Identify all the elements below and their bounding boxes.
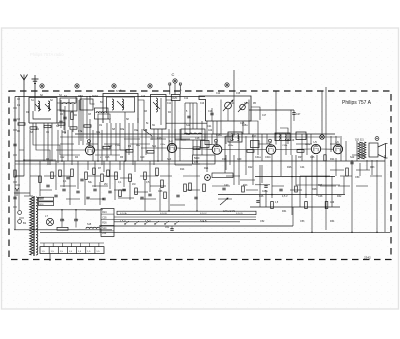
- svg-text:S 14 A: S 14 A: [120, 212, 127, 215]
- coil box S9: [151, 95, 167, 130]
- IF transformer can S17: [228, 132, 242, 142]
- wire: [23, 97, 25, 160]
- padder C16: [210, 112, 213, 114]
- svg-text:Philips 757A radio: Philips 757A radio: [30, 52, 64, 57]
- svg-text:S10: S10: [143, 129, 148, 132]
- svg-text:C12: C12: [60, 156, 65, 159]
- svg-text:R18: R18: [222, 158, 227, 161]
- grid cap L1: [88, 140, 91, 143]
- svg-text:C16: C16: [208, 110, 213, 113]
- ground symbol: [34, 75, 36, 97]
- wire: [220, 100, 222, 122]
- wire: [174, 101, 176, 124]
- wire staircase: [98, 114, 103, 150]
- svg-text:B1: B1: [23, 221, 27, 225]
- wire: [160, 98, 162, 125]
- svg-text:C52: C52: [260, 220, 265, 223]
- bus line: [15, 96, 205, 98]
- svg-text:C57: C57: [74, 219, 79, 222]
- svg-text:C56: C56: [60, 219, 65, 222]
- plug arrow: [16, 188, 19, 191]
- bus line: [40, 231, 390, 233]
- output transformer S20: [358, 142, 361, 159]
- resistor RVD box: [171, 95, 180, 101]
- wire staircase: [144, 130, 152, 140]
- resistor R21: [203, 184, 206, 192]
- coil S1: [38, 101, 40, 111]
- capacitor C43: [264, 185, 267, 187]
- tube L5: [311, 144, 320, 153]
- svg-text:C21: C21: [207, 125, 212, 128]
- resistor network box: [193, 155, 216, 164]
- wire: [14, 192, 30, 194]
- bus line: [114, 221, 240, 223]
- capacitor C15a: [102, 197, 105, 199]
- capacitor C33: [108, 190, 111, 192]
- filament chain box: [40, 247, 104, 254]
- resistor R5: [71, 169, 74, 177]
- svg-text:S15: S15: [87, 223, 92, 226]
- wire: [56, 149, 85, 151]
- capacitor C18: [140, 196, 143, 198]
- coil S9: [156, 98, 158, 112]
- terminal G: [320, 135, 325, 140]
- svg-text:Philips 757 A: Philips 757 A: [342, 100, 372, 106]
- capacitor C40a: [222, 187, 225, 189]
- svg-text:C49: C49: [330, 202, 335, 204]
- svg-text:C28: C28: [195, 137, 200, 140]
- tube L2: [167, 143, 176, 152]
- svg-text:S11: S11: [152, 145, 157, 148]
- capacitor C13: [54, 194, 57, 196]
- wave switch contacts: [124, 223, 125, 224]
- svg-text:S13: S13: [167, 158, 172, 161]
- svg-text:R31: R31: [282, 210, 287, 213]
- resistor R29: [271, 202, 274, 209]
- mains terminal: [18, 211, 22, 215]
- junction dots: [23, 159, 25, 161]
- resistor R8a: [119, 190, 122, 197]
- oscillator box: [199, 96, 251, 121]
- output transformer S21: [363, 142, 366, 159]
- svg-text:R17: R17: [252, 135, 257, 138]
- capacitor C13a: [80, 178, 83, 180]
- svg-text:2342: 2342: [364, 256, 371, 260]
- capacitor C27: [292, 112, 295, 114]
- tube L6: [333, 145, 342, 154]
- svg-text:C16: C16: [105, 156, 110, 159]
- svg-text:C14: C14: [230, 102, 235, 105]
- inter-tube components: [103, 146, 110, 149]
- wire staircase: [166, 100, 172, 143]
- wire: [211, 108, 213, 121]
- wire vertical: [248, 100, 250, 135]
- resistor R7: [101, 174, 104, 182]
- resistor R11: [156, 168, 159, 176]
- wire: [249, 109, 294, 111]
- resistor R13: [184, 184, 187, 192]
- wire gram left: [169, 85, 171, 95]
- svg-text:C14: C14: [216, 93, 221, 95]
- svg-text:R28: R28: [312, 188, 317, 191]
- tube L1: [85, 146, 94, 155]
- terminal F: [225, 83, 229, 87]
- trimmer C7: [117, 101, 124, 108]
- resistor R2a: [39, 176, 42, 183]
- resistor R15 box: [39, 197, 54, 201]
- capacitor C3: [13, 143, 16, 145]
- vertical frame left: [14, 97, 16, 230]
- svg-text:C: C: [172, 72, 175, 77]
- wire staircase: [15, 160, 24, 176]
- wire vertical: [275, 91, 277, 145]
- resistor R7a: [107, 170, 110, 177]
- coil box S6: [80, 99, 93, 110]
- svg-text:C44: C44: [300, 166, 305, 169]
- band coil box S7: [103, 94, 138, 124]
- svg-text:4,5 V: 4,5 V: [282, 195, 288, 198]
- wire: [299, 176, 301, 207]
- wire: [34, 97, 36, 111]
- resistor R4a: [59, 170, 62, 177]
- wire staircase: [57, 97, 76, 104]
- capacitor C5: [59, 120, 62, 122]
- grid resistor box2: [251, 141, 260, 148]
- IF transformer can S19: [296, 132, 306, 140]
- svg-text:C31b: C31b: [265, 156, 271, 159]
- svg-text:L6: L6: [336, 140, 340, 144]
- svg-text:C23: C23: [157, 137, 162, 140]
- wire stubs: [24, 159, 56, 161]
- capacitor C42: [350, 161, 353, 163]
- capacitor C12a: [66, 176, 69, 178]
- wire: [90, 97, 95, 105]
- svg-text:S17: S17: [230, 139, 235, 142]
- antenna: [21, 75, 28, 81]
- resistor R3a: [51, 172, 54, 179]
- chassis dashed boundary: [9, 91, 391, 260]
- bus line: [114, 216, 256, 218]
- resistor R16 box: [39, 202, 54, 206]
- coil box S5: [95, 108, 109, 119]
- resistor R27a: [295, 186, 298, 192]
- svg-text:C27: C27: [296, 113, 301, 116]
- wire stub G: [325, 87, 327, 91]
- grid cap L3: [215, 139, 218, 142]
- volume pot box: [212, 173, 233, 178]
- svg-text:S20 S21: S20 S21: [355, 140, 365, 142]
- bus line: [100, 225, 293, 227]
- capacitor C46: [256, 200, 259, 202]
- trimmer C9: [153, 102, 160, 109]
- wire staircase: [251, 107, 260, 120]
- svg-text:C19: C19: [140, 156, 145, 159]
- capacitor C30: [62, 188, 65, 190]
- wire: [185, 102, 197, 104]
- capacitor C56: [60, 218, 63, 220]
- pickup terminal: [205, 175, 211, 181]
- svg-text:2M: 2M: [104, 183, 107, 186]
- capacitor C38: [194, 196, 197, 198]
- wire staircase: [249, 121, 258, 134]
- wire: [49, 254, 51, 260]
- coil S17b: [238, 134, 239, 141]
- capacitor C31: [76, 190, 79, 192]
- capacitor C14a: [86, 196, 89, 198]
- bus line: [218, 194, 345, 196]
- svg-text:R34: R34: [330, 220, 335, 223]
- capacitor C51: [170, 228, 173, 230]
- svg-text:S14: S14: [102, 228, 107, 230]
- switch block box: [117, 211, 256, 214]
- svg-text:C15: C15: [236, 93, 241, 95]
- wire: [95, 149, 130, 151]
- wire: [40, 242, 104, 244]
- resistor R25: [346, 168, 349, 176]
- coil S17a: [232, 134, 233, 141]
- mains transformer B1 primary: [30, 197, 34, 255]
- tuning gang C15: [240, 104, 246, 110]
- mixer coupling caps: [18, 123, 25, 125]
- svg-text:L5: L5: [314, 140, 318, 144]
- svg-text:C46: C46: [259, 195, 264, 198]
- coil S18b: [285, 134, 286, 140]
- wire staircase: [226, 136, 234, 144]
- terminal D: [112, 84, 116, 88]
- resistor R12: [161, 180, 164, 188]
- svg-text:C50: C50: [355, 176, 360, 179]
- svg-text:C36: C36: [158, 190, 163, 193]
- resistor R30: [305, 202, 308, 209]
- svg-text:R26: R26: [287, 166, 292, 169]
- terminal B: [75, 84, 79, 88]
- svg-text:R3a: R3a: [120, 129, 125, 131]
- tube L3: [212, 145, 222, 155]
- svg-text:L2: L2: [170, 139, 174, 143]
- resistor R6: [85, 172, 88, 180]
- svg-text:C25: C25: [240, 122, 245, 125]
- coil S5: [96, 112, 107, 113]
- resistor R10: [144, 172, 147, 180]
- svg-text:1,5 V: 1,5 V: [120, 220, 126, 223]
- capacitor C11: [46, 184, 49, 186]
- bus line: [60, 136, 340, 138]
- wire: [259, 165, 261, 207]
- svg-text:R22a: R22a: [305, 144, 311, 146]
- svg-text:R14: R14: [180, 168, 185, 171]
- inner screen: [107, 97, 135, 112]
- resistor R1: [71, 112, 74, 120]
- wire: [103, 114, 110, 123]
- voltage table box: [101, 209, 114, 237]
- svg-text:R24: R24: [330, 158, 335, 161]
- capacitor C57: [74, 218, 77, 220]
- capacitor C44a: [279, 188, 282, 190]
- svg-text:C45a: C45a: [262, 191, 268, 193]
- wire ticks: [13, 107, 17, 109]
- svg-text:1M: 1M: [132, 183, 135, 186]
- svg-text:R27: R27: [298, 156, 303, 159]
- svg-text:R23: R23: [243, 184, 248, 187]
- wire corner: [138, 100, 144, 130]
- mains terminal 2: [18, 220, 22, 224]
- left column ticks: [19, 149, 24, 151]
- capacitor C32: [93, 188, 96, 190]
- wire: [37, 209, 103, 211]
- svg-text:R33: R33: [370, 166, 375, 169]
- wire staircase: [175, 123, 186, 140]
- RF section wires: [60, 100, 62, 128]
- svg-text:C29: C29: [237, 158, 242, 161]
- resistor R9: [129, 174, 132, 182]
- grid resistor box: [201, 141, 210, 148]
- wire staircase: [280, 128, 288, 144]
- wire staircase: [36, 123, 50, 165]
- svg-text:S 14 C: S 14 C: [200, 213, 207, 215]
- wire vertical: [321, 91, 323, 135]
- bus line: [114, 219, 256, 221]
- wire staircase: [205, 135, 212, 145]
- resistor R20: [189, 183, 192, 191]
- wire bus: [166, 122, 207, 124]
- svg-text:C47a C47b: C47a C47b: [223, 210, 236, 213]
- svg-text:C40: C40: [224, 184, 229, 187]
- resistor S16: [57, 227, 68, 230]
- coil S4: [62, 103, 75, 104]
- speaker coil box: [369, 143, 378, 157]
- wire: [331, 176, 333, 207]
- resistor R8: [115, 172, 118, 180]
- wire: [233, 91, 235, 136]
- speaker cone: [378, 144, 386, 159]
- bus line: [75, 133, 335, 135]
- resistor R10a: [164, 192, 167, 199]
- capacitor C2: [13, 118, 16, 120]
- coil box S4: [60, 98, 77, 111]
- svg-text:R21: R21: [204, 167, 209, 170]
- coil S12 box: [181, 129, 205, 140]
- bus line: [15, 160, 385, 162]
- svg-text:C17: C17: [262, 115, 267, 117]
- svg-text:R24: R24: [102, 212, 107, 214]
- svg-text:S 14 B: S 14 B: [160, 213, 167, 215]
- svg-text:C13: C13: [200, 103, 205, 105]
- bus line: [14, 229, 112, 231]
- resistor R23a: [242, 186, 245, 192]
- svg-text:S14 B: S14 B: [200, 220, 207, 223]
- coil S8: [122, 99, 124, 110]
- svg-text:C45: C45: [310, 156, 315, 159]
- terminal E: [148, 84, 152, 88]
- wire: [296, 184, 340, 186]
- trimmer C1: [35, 104, 41, 110]
- svg-text:C35: C35: [102, 217, 107, 219]
- wire: [177, 148, 213, 149]
- svg-text:C31a: C31a: [255, 156, 261, 159]
- wire: [99, 229, 101, 233]
- svg-text:C48: C48: [318, 195, 323, 198]
- coil S18a: [279, 134, 280, 140]
- svg-text:RVD: RVD: [172, 97, 177, 100]
- svg-text:C53: C53: [300, 220, 305, 223]
- svg-text:S 14 D: S 14 D: [236, 213, 243, 215]
- svg-text:1,5 V: 1,5 V: [145, 220, 151, 223]
- resistor R6a: [93, 168, 96, 175]
- wire: [141, 147, 167, 149]
- svg-text:C20a: C20a: [160, 144, 166, 146]
- aerial coil box S1: [29, 98, 57, 124]
- IF transformer can S18: [275, 133, 290, 141]
- svg-text:R32: R32: [337, 195, 342, 198]
- arrow wiper: [220, 198, 228, 205]
- coil S7: [112, 99, 114, 110]
- capacitor C20: [176, 194, 179, 196]
- wire: [222, 149, 266, 151]
- bus line: [250, 206, 340, 208]
- svg-text:S18 S19: S18 S19: [285, 139, 295, 142]
- wire: [292, 207, 294, 226]
- bus line: [255, 176, 335, 178]
- svg-text:C17: C17: [108, 145, 113, 148]
- wire drops: [78, 100, 80, 145]
- smoothing choke: [86, 227, 100, 228]
- capacitor C4: [63, 116, 66, 118]
- svg-text:R18a: R18a: [228, 145, 234, 147]
- svg-text:R2a: R2a: [62, 132, 67, 134]
- wire gram right: [179, 85, 181, 95]
- capacitor C58: [13, 196, 16, 198]
- svg-text:C15: C15: [244, 102, 249, 105]
- resistor R31: [325, 202, 328, 209]
- svg-text:C28a: C28a: [216, 134, 222, 137]
- svg-text:C33a: C33a: [282, 145, 288, 147]
- mains transformer B1 secondary: [36, 197, 38, 255]
- wire: [227, 109, 229, 121]
- wire corner: [57, 110, 64, 130]
- svg-text:S12: S12: [186, 124, 191, 127]
- svg-text:C24: C24: [196, 148, 201, 151]
- speaker terminal: [375, 137, 379, 141]
- transformer core: [33, 196, 35, 256]
- wire staircase: [33, 123, 60, 155]
- grid cap L4: [269, 139, 272, 142]
- resistor R9a: [135, 188, 138, 195]
- wire vertical: [325, 91, 327, 230]
- capacitor C22: [187, 115, 190, 117]
- resistor R24: [324, 155, 326, 161]
- rectifier tube L7: [46, 218, 53, 225]
- wire: [276, 148, 312, 151]
- wire pair: [192, 103, 194, 129]
- wire staircase: [212, 134, 221, 144]
- svg-text:C51: C51: [165, 227, 170, 229]
- svg-text:R26: R26: [102, 223, 107, 225]
- svg-text:S20: S20: [350, 156, 355, 159]
- wire: [33, 111, 51, 119]
- bus line: [15, 163, 200, 165]
- tube L4: [266, 145, 276, 155]
- terminal A: [40, 84, 44, 88]
- svg-text:R22: R22: [248, 166, 253, 169]
- wire: [321, 148, 334, 150]
- resistor R2: [14, 170, 16, 177]
- wire stub F: [233, 70, 235, 91]
- coil S12: [184, 133, 202, 134]
- svg-text:5000: 5000: [194, 157, 200, 160]
- wire staircase: [120, 150, 126, 161]
- tuning gang C14: [225, 102, 232, 109]
- capacitor C34: [122, 188, 125, 190]
